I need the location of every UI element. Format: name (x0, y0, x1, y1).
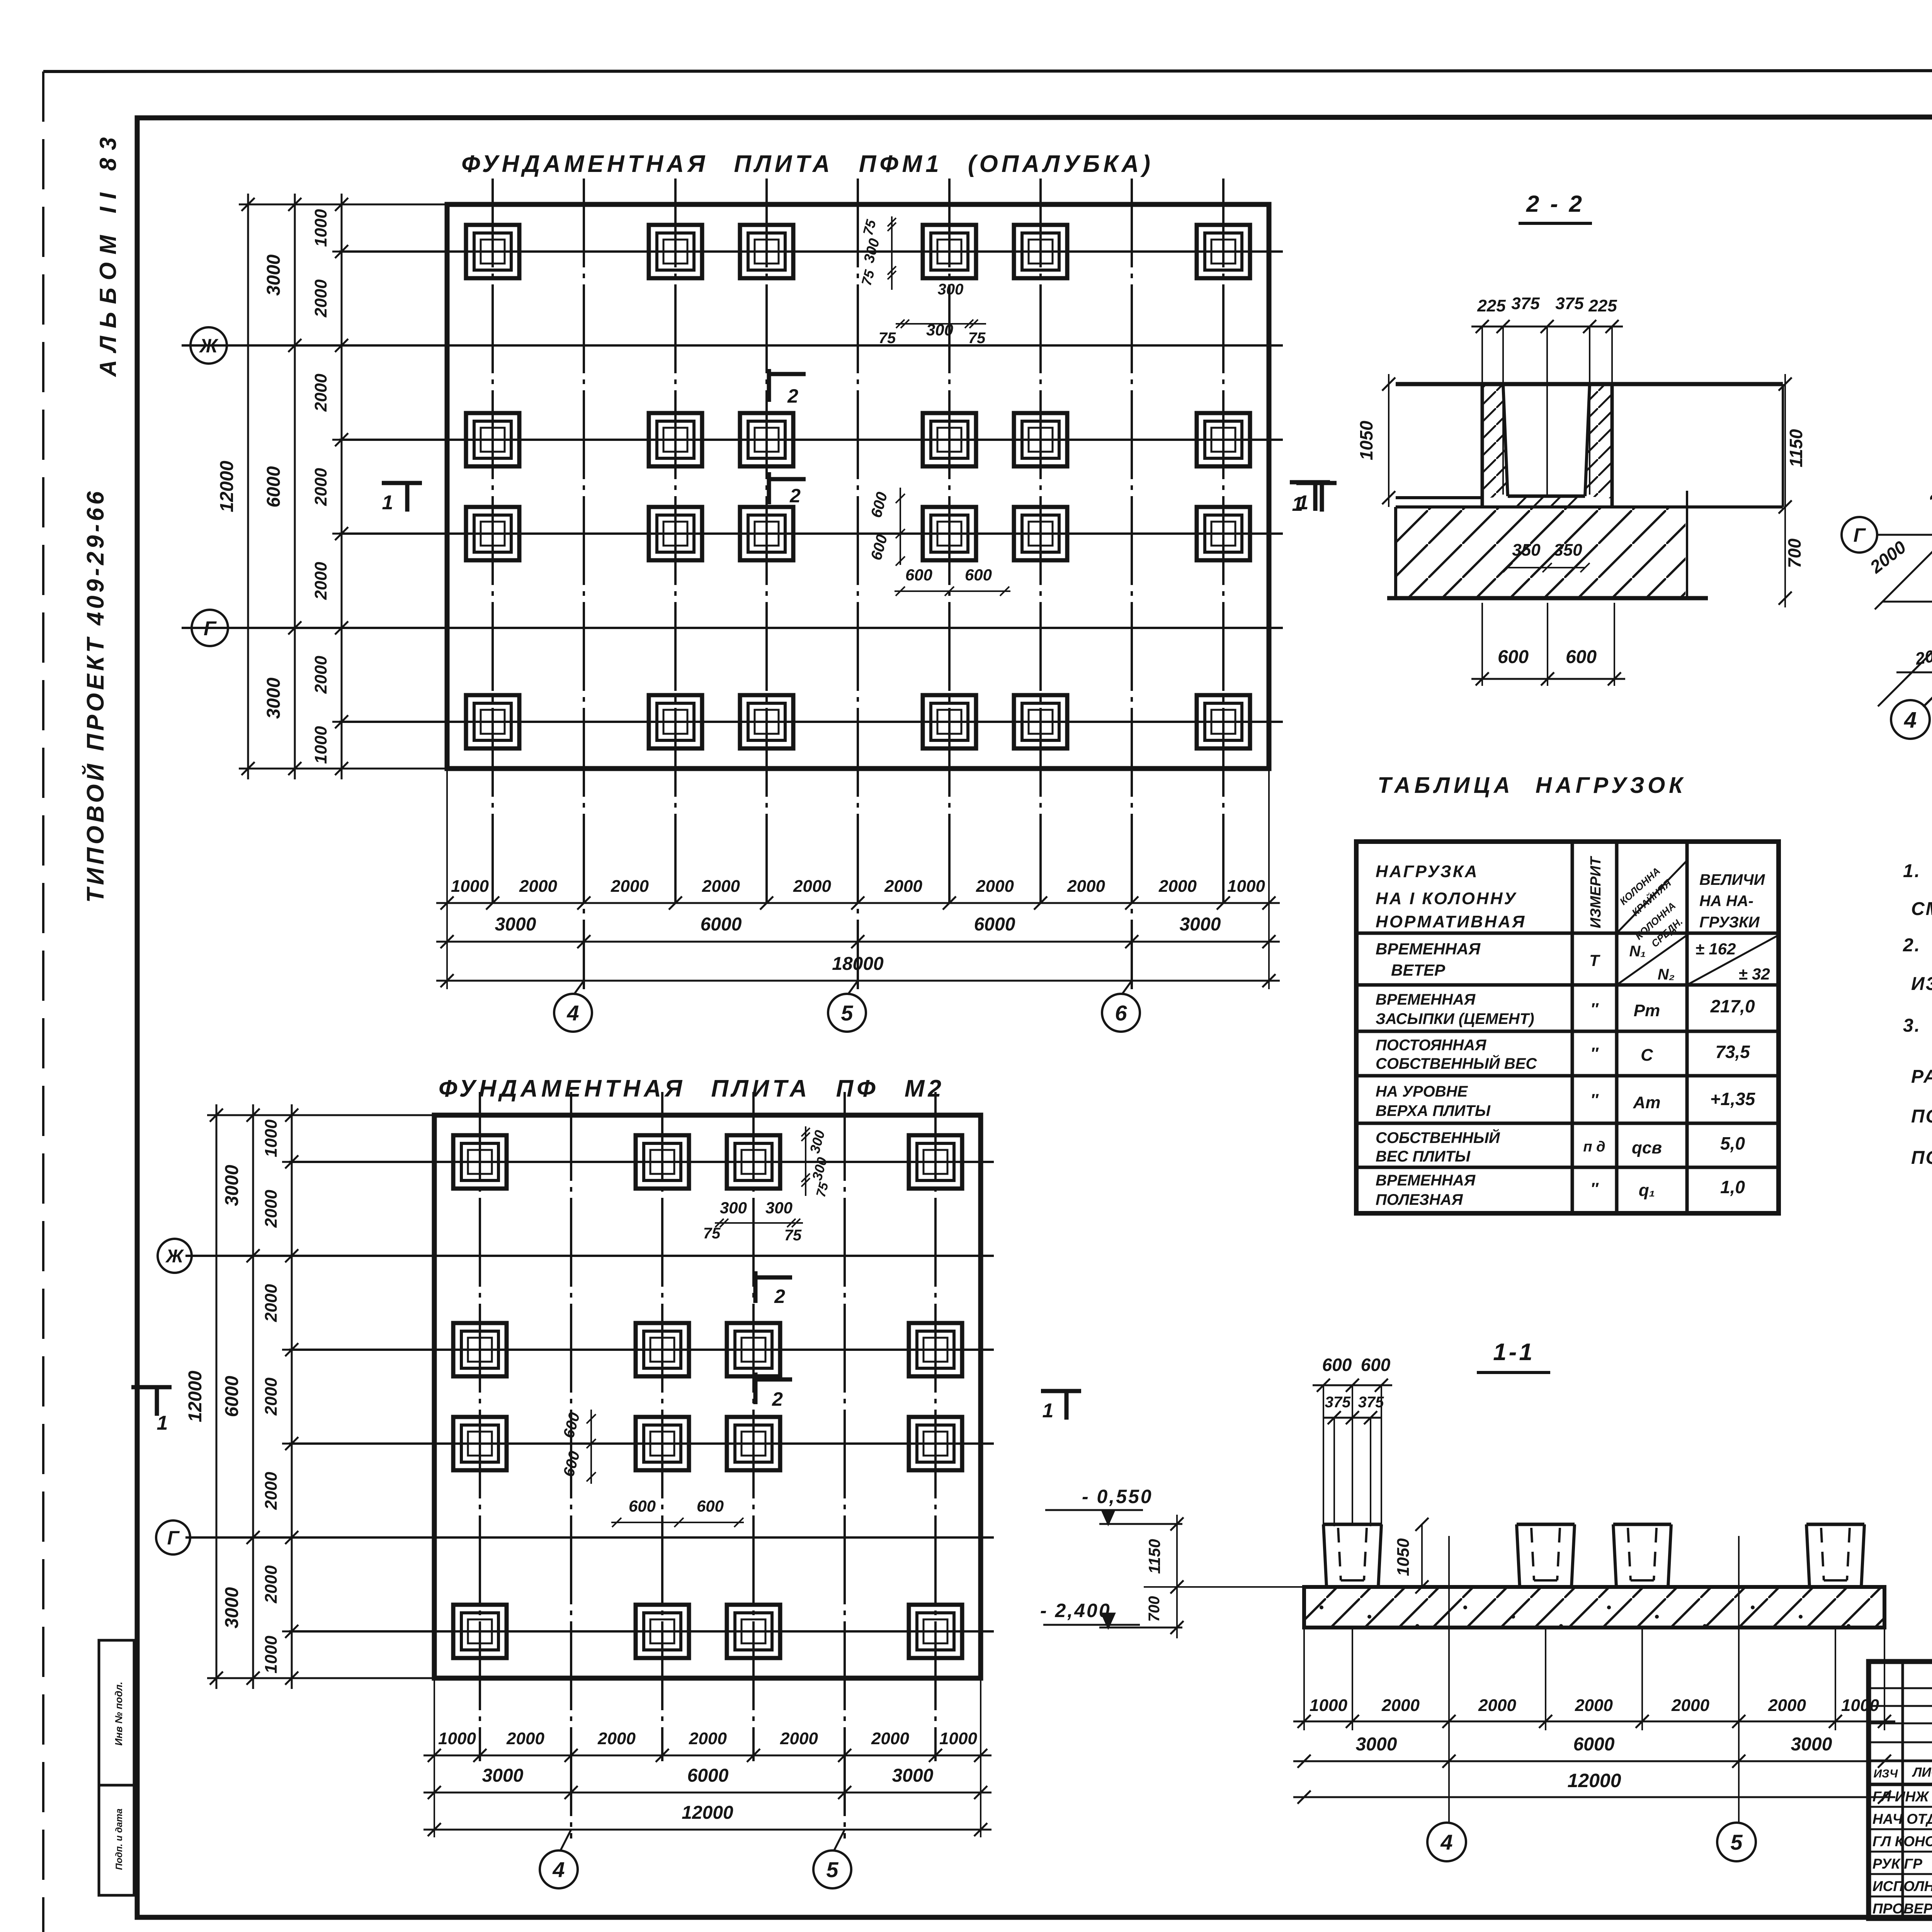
svg-text:1. МАРКИРОВОЧНУЮ СХЕМУ ФУН: 1. МАРКИРОВОЧНУЮ СХЕМУ ФУНДАМЕНТОВ В ОСЯ… (1903, 861, 1932, 881)
svg-text:3000: 3000 (482, 1765, 524, 1786)
svg-text:4: 4 (1440, 1830, 1452, 1854)
svg-text:ВРЕМЕННАЯ: ВРЕМЕННАЯ (1376, 940, 1481, 958)
svg-text:+1,35: +1,35 (1710, 1089, 1756, 1109)
svg-text:300: 300 (938, 281, 964, 298)
svg-text:600: 600 (697, 1497, 724, 1515)
svg-text:1000: 1000 (311, 726, 330, 764)
section 1-1 column cups (1323, 1523, 1381, 1526)
svg-text:1000: 1000 (262, 1636, 281, 1673)
svg-text:N₁: N₁ (1629, 943, 1646, 960)
svg-text:5: 5 (841, 1001, 853, 1025)
section 1-1 bottom dimension chains (1303, 1628, 1305, 1730)
svg-text:2. ПОД ФУНДАМЕНТНОЙ ПЛИТОЙ: 2. ПОД ФУНДАМЕНТНОЙ ПЛИТОЙ ВЫПОЛНИТЬ ПОД… (1903, 934, 1932, 956)
svg-text:3000: 3000 (264, 254, 284, 296)
axonometric axis circles 4 5 6 with stems (1923, 672, 1932, 707)
svg-text:3000: 3000 (222, 1165, 242, 1206)
plan PFM1 local dims 600 at middle pad (900, 488, 901, 565)
svg-text:6000: 6000 (264, 466, 284, 507)
svg-text:- 0,550: - 0,550 (1082, 1486, 1153, 1507)
svg-text:1050: 1050 (1356, 420, 1376, 460)
svg-text:5: 5 (826, 1857, 838, 1882)
svg-text:1,0: 1,0 (1720, 1177, 1745, 1197)
svg-text:6000: 6000 (687, 1765, 729, 1786)
outer sheet border (43, 70, 1932, 71)
svg-text:2000: 2000 (311, 374, 330, 412)
svg-text:2000: 2000 (1158, 877, 1197, 896)
section 2-2 ledge lines (1396, 496, 1482, 499)
svg-text:12000: 12000 (682, 1803, 733, 1823)
svg-text:1050: 1050 (1394, 1538, 1413, 1576)
svg-text:ВЕС ПЛИТЫ: ВЕС ПЛИТЫ (1376, 1148, 1471, 1165)
section 2-2 dim 350/350 (1508, 567, 1585, 568)
svg-text:2000: 2000 (311, 468, 330, 506)
plan PFM2 axis circle Zh (158, 1239, 192, 1273)
svg-text:12000: 12000 (185, 1371, 206, 1422)
section 2-2 cup walls (1481, 384, 1484, 507)
svg-text:N₂: N₂ (1658, 966, 1675, 983)
plan PFM2 local dims 600 at middle pad (590, 1410, 592, 1484)
svg-text:2: 2 (772, 1388, 783, 1410)
plan PFM2 local dims 300/75 at top pad (805, 1126, 806, 1196)
svg-text:ВЕЛИЧИ: ВЕЛИЧИ (1699, 871, 1765, 888)
svg-text:4: 4 (566, 1001, 579, 1025)
svg-text:375: 375 (1358, 1394, 1384, 1411)
svg-text:1: 1 (1292, 493, 1303, 515)
svg-text:2 - 2: 2 - 2 (1526, 191, 1584, 217)
svg-text:300: 300 (765, 1199, 793, 1217)
svg-text:ГЛ ИНЖ ПР: ГЛ ИНЖ ПР (1872, 1789, 1932, 1804)
svg-text:ВЕТЕР: ВЕТЕР (1391, 961, 1446, 979)
axonometric axis circle G (1842, 517, 1877, 553)
svg-text:375: 375 (1555, 294, 1584, 313)
section 2-2 dim 1050 left (1388, 374, 1389, 507)
svg-text:600: 600 (1566, 647, 1597, 667)
bottom-left margin cells (99, 1640, 134, 1785)
svg-text:ИЗ БЕТОНА МАРКИ 50, ТОЛЩИН: ИЗ БЕТОНА МАРКИ 50, ТОЛЩИНОЙ 100 ММ. (1911, 973, 1932, 994)
svg-text:qсв: qсв (1632, 1138, 1662, 1157)
plan PFM1 bottom axis circles 4 5 6 (574, 981, 584, 995)
plan PFM2 row grid lines (289, 1161, 994, 1163)
plan PFM2 column grid lines (479, 1092, 481, 1761)
section 1-1 slab with concrete hatch (1304, 1587, 1884, 1628)
svg-text:ФУНДАМЕНТНАЯ ПЛИТА ПФМ1 (ОПА: ФУНДАМЕНТНАЯ ПЛИТА ПФМ1 (ОПАЛУБКА) (461, 151, 1154, 177)
svg-text:НА УРОВНЕ: НА УРОВНЕ (1376, 1083, 1468, 1100)
svg-text:600: 600 (629, 1497, 656, 1515)
svg-text:6000: 6000 (701, 914, 742, 935)
svg-text:2000: 2000 (311, 279, 330, 318)
svg-text:225: 225 (1477, 296, 1506, 315)
section 2-2 footing with concrete hatch (1394, 507, 1397, 598)
svg-text:2000: 2000 (262, 1472, 281, 1510)
svg-text:1000: 1000 (1310, 1696, 1347, 1715)
svg-text:АЛЬБОМ II 83: АЛЬБОМ II 83 (95, 129, 121, 378)
svg-text:600: 600 (1498, 647, 1529, 667)
section 2-2 dims 1150/700 right (1784, 374, 1786, 607)
plan PFM2 bottom dimension chains (434, 1678, 435, 1837)
svg-text:700: 700 (1784, 538, 1804, 568)
svg-text:2: 2 (789, 485, 801, 507)
svg-text:6000: 6000 (1573, 1734, 1615, 1755)
plan PFM2 axis circle G (156, 1520, 190, 1554)
svg-text:4: 4 (1904, 707, 1917, 733)
svg-text:q₁: q₁ (1639, 1181, 1655, 1200)
plan PFM2 left dimension chains (207, 1114, 434, 1116)
section 1-1 axis lines and circles 4 5 (1448, 1536, 1450, 1822)
section 1-1 dim 1050 (1421, 1524, 1423, 1587)
svg-text:350: 350 (1554, 541, 1582, 560)
svg-text:Ж: Ж (199, 335, 219, 357)
svg-text:1150: 1150 (1145, 1539, 1163, 1574)
svg-text:НОРМАТИВНАЯ: НОРМАТИВНАЯ (1376, 912, 1526, 931)
svg-text:2000: 2000 (702, 877, 740, 896)
svg-text:2000: 2000 (311, 562, 330, 600)
svg-text:6000: 6000 (222, 1376, 242, 1417)
svg-text:РАССЧИТАН НА ЭВМ МИНСК-33: РАССЧИТАН НА ЭВМ МИНСК-33. РАСЧЕТ ПРОИЗВ… (1911, 1066, 1932, 1087)
svg-text:± 162: ± 162 (1696, 940, 1736, 958)
svg-text:″: ″ (1590, 1000, 1599, 1018)
plan PFM1 section mark 1 left (382, 481, 422, 485)
plan PFM1 axis circle Zh (190, 327, 227, 364)
svg-text:НАГРУЗКА: НАГРУЗКА (1376, 862, 1479, 881)
svg-text:″: ″ (1590, 1179, 1599, 1197)
svg-text:″: ″ (1590, 1090, 1599, 1109)
section 1-1 dims 1150/700 left (1176, 1515, 1178, 1638)
svg-text:ТАБЛИЦА НАГРУЗОК: ТАБЛИЦА НАГРУЗОК (1378, 773, 1687, 798)
svg-text:300: 300 (720, 1199, 747, 1217)
svg-text:2000: 2000 (976, 877, 1014, 896)
svg-text:375: 375 (1325, 1394, 1351, 1411)
svg-text:3. МОНОЛИТНЫЙ ЖЕЛЕЗОБЕТОННЫЙ: 3. МОНОЛИТНЫЙ ЖЕЛЕЗОБЕТОННЫЙ, ФУНДАМЕНТ (1903, 1015, 1932, 1036)
axonometric plane left edge (1875, 252, 1932, 609)
plan PFM2 section mark 1 right (1041, 1389, 1081, 1393)
svg-text:3000: 3000 (1180, 914, 1221, 935)
svg-text:Подп. и дата: Подп. и дата (114, 1809, 124, 1870)
svg-text:18000: 18000 (832, 954, 884, 974)
plan PFM1 slab outline (447, 204, 1269, 769)
svg-text:2000: 2000 (262, 1190, 281, 1228)
svg-text:1000: 1000 (438, 1729, 476, 1748)
svg-text:Т: Т (1589, 951, 1600, 969)
svg-text:НА НА-: НА НА- (1699, 893, 1753, 910)
svg-text:2000: 2000 (597, 1729, 636, 1748)
svg-text:75: 75 (879, 330, 896, 347)
plan PFM2 foundation pads (453, 1135, 507, 1189)
title block left columns (1901, 1662, 1904, 1918)
svg-text:ИЗЧ: ИЗЧ (1874, 1767, 1898, 1780)
svg-text:СОБСТВЕННЫЙ ВЕС: СОБСТВЕННЫЙ ВЕС (1376, 1054, 1537, 1072)
svg-text:5: 5 (1730, 1830, 1743, 1854)
svg-text:2000: 2000 (311, 656, 330, 694)
svg-text:Г: Г (204, 617, 217, 640)
svg-text:ПО ГИПОТЕЗЕ. ВИНКЛЕРА: ПО ГИПОТЕЗЕ. ВИНКЛЕРА ПРИ КОЭФФИЦНЕНТЕ (1911, 1106, 1932, 1127)
svg-text:225: 225 (1588, 296, 1617, 315)
svg-text:350: 350 (1512, 541, 1541, 560)
svg-text:600: 600 (1361, 1355, 1391, 1375)
svg-text:1-1: 1-1 (1493, 1339, 1535, 1366)
svg-text:1: 1 (1043, 1400, 1054, 1422)
svg-text:НА I КОЛОННУ: НА I КОЛОННУ (1376, 889, 1517, 908)
svg-text:″: ″ (1590, 1044, 1599, 1062)
svg-text:ИСПОЛН: ИСПОЛН (1872, 1878, 1932, 1894)
svg-text:12000: 12000 (1567, 1770, 1621, 1791)
svg-text:1000: 1000 (939, 1729, 977, 1748)
svg-text:ИЗМЕРИТ: ИЗМЕРИТ (1588, 856, 1604, 928)
svg-text:2000: 2000 (262, 1284, 281, 1322)
svg-text:± 32: ± 32 (1738, 965, 1770, 983)
svg-text:ПОСТЕЛИ 3КГ/СМ³: ПОСТЕЛИ 3КГ/СМ³ (1911, 1148, 1932, 1168)
svg-text:ПОСТОЯННАЯ: ПОСТОЯННАЯ (1376, 1037, 1486, 1054)
plan PFM1 row grid lines (339, 250, 1283, 253)
svg-text:2000: 2000 (1768, 1696, 1806, 1715)
svg-text:ПРОВЕР: ПРОВЕР (1872, 1901, 1932, 1917)
svg-text:3000: 3000 (222, 1587, 242, 1628)
svg-text:375: 375 (1511, 294, 1540, 313)
svg-text:1150: 1150 (1786, 429, 1806, 467)
plan PFM2 slab outline (434, 1115, 981, 1678)
svg-text:СОБСТВЕННЫЙ: СОБСТВЕННЫЙ (1376, 1128, 1500, 1146)
plan PFM2 section marks 2 (753, 1271, 758, 1303)
svg-text:1000: 1000 (311, 209, 330, 247)
svg-text:4: 4 (552, 1857, 565, 1882)
section 2-2 section mark 1 (1290, 480, 1330, 485)
title block outer frame (1869, 1662, 1932, 1918)
svg-text:3000: 3000 (495, 914, 536, 935)
plan PFM2 bottom axis circles 4 5 (560, 1830, 571, 1851)
svg-text:5,0: 5,0 (1720, 1133, 1745, 1153)
plan PFM1 column grid lines (492, 179, 494, 909)
svg-text:ЛИСТ: ЛИСТ (1912, 1765, 1932, 1780)
svg-text:Ат: Ат (1633, 1093, 1661, 1112)
svg-text:Инв № подл.: Инв № подл. (113, 1682, 124, 1746)
title block left thin revision rows (1869, 1687, 1932, 1689)
svg-text:2000: 2000 (780, 1729, 818, 1748)
svg-text:75: 75 (703, 1225, 721, 1242)
svg-text:СМ ЛИСТ КЖ-16,17.: СМ ЛИСТ КЖ-16,17. (1911, 899, 1932, 919)
svg-text:2: 2 (787, 385, 798, 407)
svg-text:Г: Г (1854, 524, 1866, 546)
svg-text:ПОЛЕЗНАЯ: ПОЛЕЗНАЯ (1376, 1191, 1463, 1208)
svg-text:3000: 3000 (1356, 1734, 1397, 1755)
section 2-2 foundation top slab line (1396, 382, 1783, 386)
svg-text:ГРУЗКИ: ГРУЗКИ (1699, 914, 1760, 931)
svg-text:600: 600 (965, 566, 992, 584)
svg-text:1: 1 (157, 1412, 168, 1434)
svg-text:2000: 2000 (1381, 1696, 1420, 1715)
svg-text:ВРЕМЕННАЯ: ВРЕМЕННАЯ (1376, 1172, 1476, 1189)
svg-text:ГЛ КОНСТ: ГЛ КОНСТ (1872, 1833, 1932, 1849)
svg-text:2: 2 (774, 1286, 785, 1307)
axonometric bottom 2000 dim chain (1896, 672, 1932, 673)
plan PFM1 axis circle G (192, 610, 228, 646)
svg-text:3000: 3000 (1791, 1734, 1832, 1755)
svg-text:п д: п д (1583, 1139, 1605, 1155)
plan PFM1 section marks 2 (767, 369, 771, 402)
svg-text:1: 1 (382, 492, 393, 514)
svg-text:РУК ГР: РУК ГР (1872, 1856, 1922, 1872)
svg-text:2000: 2000 (262, 1565, 281, 1604)
svg-text:3000: 3000 (264, 677, 284, 719)
section 2-2 top dim 225/375/375/225 (1471, 326, 1623, 328)
svg-text:6000: 6000 (974, 914, 1015, 935)
svg-text:Рт: Рт (1634, 1001, 1660, 1020)
svg-text:ВЕРХА ПЛИТЫ: ВЕРХА ПЛИТЫ (1376, 1102, 1491, 1119)
svg-text:600: 600 (1322, 1355, 1352, 1375)
svg-text:1000: 1000 (451, 877, 489, 896)
svg-text:2000: 2000 (611, 877, 649, 896)
plan PFM1 local dims 75/300 at top pad (891, 216, 893, 290)
svg-text:Ж: Ж (165, 1246, 184, 1267)
plan PFM1 left dimension chains (239, 204, 447, 206)
svg-text:1000: 1000 (262, 1119, 281, 1157)
section 2-2 bottom dim 600/600 (1481, 603, 1483, 686)
svg-text:6: 6 (1115, 1001, 1127, 1025)
svg-text:700: 700 (1146, 1596, 1163, 1622)
svg-text:ВРЕМЕННАЯ: ВРЕМЕННАЯ (1376, 991, 1476, 1008)
svg-text:2000: 2000 (262, 1378, 281, 1416)
section 2-2 wall hatching (1482, 384, 1508, 498)
svg-text:ТИПОВОЙ ПРОЕКТ 409-29-66: ТИПОВОЙ ПРОЕКТ 409-29-66 (82, 488, 109, 903)
svg-text:2000: 2000 (871, 1729, 909, 1748)
plan PFM2 section mark 1 left (131, 1385, 172, 1389)
svg-text:2000: 2000 (1575, 1696, 1613, 1715)
svg-text:75: 75 (784, 1227, 802, 1244)
svg-text:300: 300 (926, 321, 953, 339)
section 1-1 dims 600/375 above first cup (1323, 1385, 1324, 1524)
plan PFM1 section mark 1 right (1296, 481, 1337, 485)
axonometric grid column diagonals (1878, 251, 1932, 706)
load table grid (1356, 842, 1779, 1213)
svg-text:2000: 2000 (1478, 1696, 1516, 1715)
svg-text:217,0: 217,0 (1710, 996, 1755, 1016)
svg-text:3000: 3000 (892, 1765, 934, 1786)
svg-text:2000: 2000 (689, 1729, 727, 1748)
svg-text:12000: 12000 (217, 461, 237, 512)
svg-text:2000: 2000 (506, 1729, 544, 1748)
svg-text:2000: 2000 (793, 877, 831, 896)
svg-text:Г: Г (167, 1527, 180, 1549)
svg-text:600: 600 (905, 566, 932, 584)
svg-text:73,5: 73,5 (1715, 1042, 1750, 1062)
svg-text:- 2,400: - 2,400 (1040, 1600, 1111, 1621)
plan PFM1 bottom dimension chains (446, 769, 448, 989)
plan PFM1 foundation pads (466, 225, 519, 278)
svg-text:ФУНДАМЕНТНАЯ ПЛИТА ПФ М2: ФУНДАМЕНТНАЯ ПЛИТА ПФ М2 (439, 1075, 945, 1102)
svg-text:2000: 2000 (1671, 1696, 1709, 1715)
svg-text:С: С (1641, 1046, 1653, 1065)
svg-text:2000: 2000 (884, 877, 922, 896)
svg-text:2000: 2000 (1067, 877, 1105, 896)
svg-text:1000: 1000 (1227, 877, 1265, 896)
svg-text:75: 75 (968, 330, 986, 347)
svg-text:ЗАСЫПКИ (ЦЕМЕНТ): ЗАСЫПКИ (ЦЕМЕНТ) (1376, 1010, 1534, 1027)
svg-text:2000: 2000 (519, 877, 557, 896)
svg-text:НАЧ ОТД.: НАЧ ОТД. (1872, 1811, 1932, 1827)
